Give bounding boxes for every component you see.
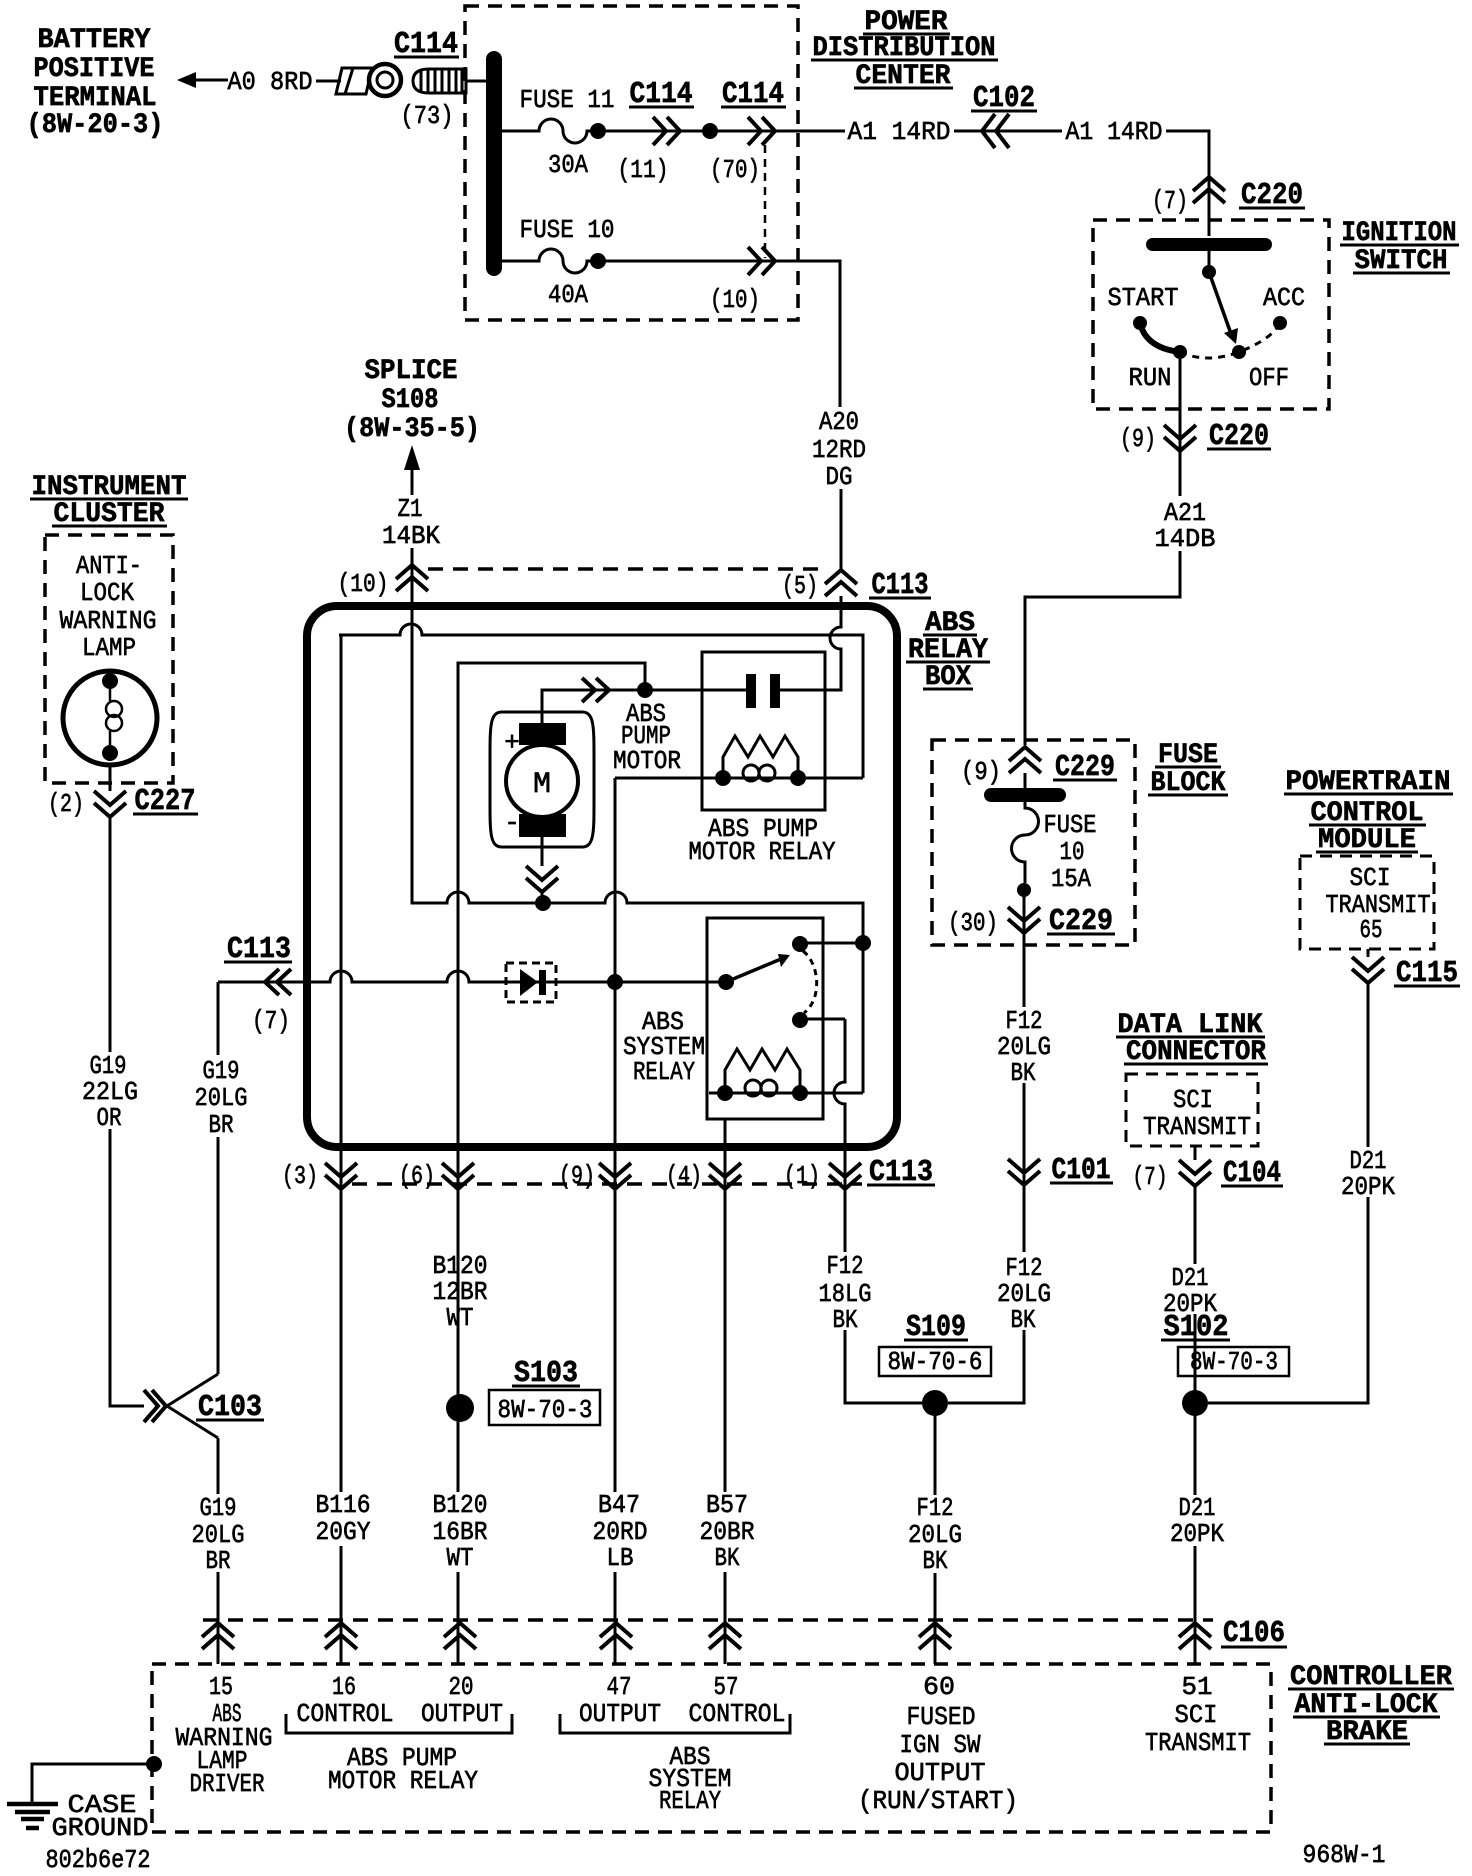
svg-text:RUN: RUN [1129,363,1172,393]
svg-text:G19: G19 [203,1056,240,1086]
svg-text:(RUN/START): (RUN/START) [858,1786,1018,1816]
svg-text:SCI: SCI [1175,1700,1218,1730]
svg-text:LB: LB [607,1543,634,1573]
svg-text:RELAY: RELAY [633,1057,695,1087]
svg-text:(7): (7) [1152,186,1188,216]
svg-text:FUSE 11: FUSE 11 [520,85,615,115]
svg-text:8W-70-3: 8W-70-3 [498,1395,593,1425]
svg-text:802b6e72: 802b6e72 [46,1845,151,1875]
svg-text:B116: B116 [316,1490,371,1520]
svg-text:(9): (9) [1120,424,1156,454]
svg-text:BATTERY: BATTERY [38,25,151,56]
svg-text:8W-70-3: 8W-70-3 [1190,1347,1278,1377]
svg-text:14DB: 14DB [1155,524,1216,554]
svg-text:MOTOR RELAY: MOTOR RELAY [689,837,836,867]
svg-text:IGN SW: IGN SW [900,1730,981,1760]
svg-text:12RD: 12RD [812,435,866,465]
svg-text:(7): (7) [252,1006,290,1036]
svg-text:BR: BR [209,1110,234,1140]
svg-text:57: 57 [714,1672,739,1702]
svg-text:FUSE: FUSE [1044,810,1097,840]
svg-text:(2): (2) [48,789,84,819]
svg-text:FUSE 10: FUSE 10 [520,215,615,245]
svg-text:RELAY: RELAY [659,1786,721,1816]
svg-text:A0 8RD: A0 8RD [228,67,313,97]
svg-text:ANTI-: ANTI- [76,551,142,581]
svg-text:51: 51 [1182,1672,1213,1702]
svg-text:START: START [1108,283,1179,313]
svg-text:TRANSMIT: TRANSMIT [1145,1728,1251,1758]
svg-text:M: M [533,768,551,802]
svg-text:OUTPUT: OUTPUT [895,1758,986,1788]
svg-text:WT: WT [447,1543,474,1573]
svg-text:F12: F12 [827,1251,864,1281]
svg-text:LOCK: LOCK [80,578,134,608]
svg-text:8W-70-6: 8W-70-6 [888,1347,983,1377]
svg-text:47: 47 [607,1672,632,1702]
svg-text:BK: BK [715,1543,740,1573]
svg-text:(30): (30) [948,908,998,938]
svg-text:A1 14RD: A1 14RD [848,117,951,147]
svg-text:(4): (4) [666,1161,702,1191]
svg-text:(3): (3) [282,1161,318,1191]
svg-text:CONTROL: CONTROL [689,1699,786,1729]
svg-text:DRIVER: DRIVER [190,1769,265,1799]
svg-text:BK: BK [1011,1305,1036,1335]
svg-text:WT: WT [447,1303,474,1333]
svg-text:Z1: Z1 [398,494,423,524]
svg-text:OUTPUT: OUTPUT [579,1699,661,1729]
svg-text:F12: F12 [917,1493,954,1523]
svg-text:(8W-20-3): (8W-20-3) [27,110,164,141]
svg-text:A1 14RD: A1 14RD [1066,117,1163,147]
svg-text:OUTPUT: OUTPUT [421,1699,503,1729]
svg-text:60: 60 [923,1672,955,1702]
svg-text:(6): (6) [399,1161,435,1191]
svg-text:20GY: 20GY [316,1517,371,1547]
svg-text:LAMP: LAMP [82,633,136,663]
svg-text:30A: 30A [548,150,588,180]
svg-text:968W-1: 968W-1 [1303,1840,1386,1870]
svg-text:(10): (10) [338,569,389,599]
svg-text:10: 10 [1060,837,1085,867]
svg-text:WARNING: WARNING [60,606,157,636]
svg-text:-: - [504,808,520,838]
svg-text:SCI: SCI [1350,863,1391,893]
svg-text:OFF: OFF [1249,363,1289,393]
svg-text:TRANSMIT: TRANSMIT [1143,1112,1251,1142]
svg-text:G19: G19 [200,1493,237,1523]
svg-text:(5): (5) [782,571,818,601]
svg-text:(73): (73) [401,101,454,131]
svg-text:BK: BK [1011,1058,1036,1088]
svg-text:MOTOR RELAY: MOTOR RELAY [328,1766,478,1796]
svg-text:14BK: 14BK [382,521,440,551]
svg-text:(1): (1) [784,1161,820,1191]
svg-text:20LG: 20LG [195,1083,248,1113]
svg-text:BK: BK [833,1305,858,1335]
svg-text:MOTOR: MOTOR [613,746,681,776]
svg-text:B57: B57 [706,1490,748,1520]
svg-text:(11): (11) [618,155,669,185]
svg-text:FUSED: FUSED [907,1702,976,1732]
svg-text:B47: B47 [598,1490,640,1520]
svg-text:40A: 40A [548,280,588,310]
svg-text:(9): (9) [559,1161,595,1191]
svg-text:S108: S108 [382,385,439,416]
svg-text:15A: 15A [1051,864,1091,894]
svg-text:65: 65 [1360,915,1383,945]
svg-text:(10): (10) [710,285,760,315]
svg-text:+: + [504,728,520,758]
svg-text:20PK: 20PK [1341,1172,1395,1202]
svg-text:BR: BR [206,1546,231,1576]
svg-text:BK: BK [923,1546,948,1576]
svg-text:CONTROL: CONTROL [297,1699,394,1729]
svg-text:ACC: ACC [1263,283,1305,313]
svg-text:(9): (9) [961,757,1001,787]
svg-text:A20: A20 [819,407,859,437]
svg-text:SPLICE: SPLICE [365,356,458,387]
svg-text:20PK: 20PK [1170,1519,1224,1549]
svg-text:SCI: SCI [1173,1085,1213,1115]
svg-text:(70): (70) [710,155,760,185]
svg-text:DG: DG [826,462,853,492]
svg-text:(8W-35-5): (8W-35-5) [344,414,480,445]
svg-text:(7): (7) [1133,1162,1168,1192]
svg-text:OR: OR [97,1103,122,1133]
svg-text:POSITIVE: POSITIVE [34,54,155,85]
svg-text:GROUND: GROUND [52,1813,149,1843]
svg-text:16: 16 [332,1672,356,1702]
svg-text:20: 20 [449,1672,474,1702]
svg-text:15: 15 [209,1672,233,1702]
svg-text:B120: B120 [433,1490,488,1520]
